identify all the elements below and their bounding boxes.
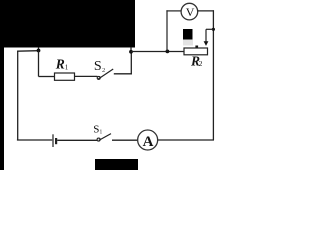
wire: switch S1 to ammeter — [112, 139, 137, 141]
resistor R1 — [55, 73, 75, 80]
wire: voltmeter loop top left — [166, 10, 181, 12]
node J2 stub — [130, 47, 132, 52]
gray shadow square — [183, 40, 193, 46]
wire: top-left horizontal — [17, 50, 38, 53]
wire: voltmeter loop left vertical — [166, 10, 168, 51]
svg-text:A: A — [143, 134, 154, 150]
left black margin strip — [0, 0, 4, 170]
node J4 — [212, 28, 215, 31]
wire: R1 branch left — [39, 76, 55, 78]
rheostat R2 — [184, 48, 208, 55]
black answer square — [183, 29, 193, 40]
node J1 stub — [38, 47, 40, 51]
wire: voltmeter loop top right — [197, 10, 214, 12]
wire: switch S2 to right corner — [114, 73, 132, 75]
node J3 — [166, 50, 170, 54]
wire: slider branch horizontal — [206, 28, 213, 30]
wire: J1 down to R1 branch — [38, 51, 40, 77]
wire: battery to switch S1 — [57, 139, 97, 141]
battery short plate — [55, 138, 57, 144]
slider contact tick on R2 — [195, 46, 198, 49]
wire: slider branch vertical — [205, 29, 207, 42]
wire: bottom left horizontal — [17, 139, 52, 141]
wire: R1 to switch S2 — [75, 75, 98, 77]
switch S2 pivot — [97, 76, 100, 79]
svg-text:1: 1 — [65, 64, 69, 72]
wire: corner up to J2 — [130, 52, 132, 75]
svg-text:S: S — [94, 59, 102, 74]
node J1 — [37, 49, 41, 53]
svg-text:1: 1 — [99, 130, 102, 136]
node J2 — [129, 50, 133, 54]
svg-text:2: 2 — [102, 67, 105, 74]
bottom black bar — [95, 159, 138, 170]
switch S2 lever — [98, 69, 114, 79]
wire: ammeter to right corner — [158, 139, 214, 141]
switch S1 pivot — [97, 138, 100, 141]
wire: right vertical — [212, 10, 214, 140]
svg-text:V: V — [186, 5, 195, 19]
svg-text:2: 2 — [199, 59, 203, 68]
ammeter A — [138, 130, 158, 150]
svg-text:R: R — [55, 56, 65, 71]
black redaction block top-left — [0, 0, 135, 48]
battery long plate — [52, 134, 54, 147]
wire: left vertical — [17, 51, 19, 140]
slider arrowhead — [204, 41, 209, 46]
switch S1 lever — [99, 134, 111, 141]
wire: main horizontal to R2 — [131, 51, 185, 53]
voltmeter V — [181, 3, 198, 20]
